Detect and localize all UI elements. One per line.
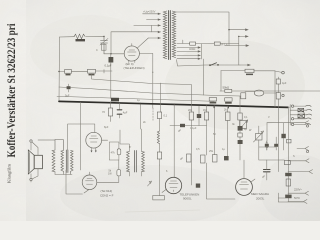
wire switch line y65 (153, 54, 240, 109)
svg-text:50Hz: 50Hz (294, 197, 301, 200)
resistor R1 (zigzag) (74, 34, 85, 39)
tube V1 (input pentode) (124, 46, 139, 61)
svg-text:MED SAGRA: MED SAGRA (251, 192, 269, 196)
svg-text:8µF: 8µF (104, 126, 109, 129)
transformer T1 left winding (163, 11, 167, 59)
tube V5 (rectifier) (236, 179, 253, 196)
fuse F1 (298, 109, 304, 112)
terminal circle (282, 71, 285, 74)
wire grid line to tube V1 (104, 53, 124, 55)
node vertical tap bus (201, 44, 203, 59)
pot with arrow (variable resistor) (256, 134, 263, 141)
wires arrow taps into transformer T1 left (134, 14, 161, 38)
svg-text:0,1: 0,1 (164, 114, 168, 118)
node mains vertical (288, 105, 290, 126)
pot chain x159.5 (160, 83, 162, 112)
svg-text:4µF: 4µF (123, 111, 128, 115)
wire speaker bottom (31, 172, 72, 182)
wire speaker output arrows (225, 30, 247, 65)
capacitor C2 (dark blob under grid wire) (110, 54, 112, 64)
potentiometer P2 (240, 121, 247, 129)
wire feedback top (111, 32, 161, 54)
wire mains lines (290, 106, 306, 124)
wire bottom y199 (207, 163, 236, 199)
wire x112 vertical (cap to bus) (110, 62, 112, 99)
wire T3 leads (120, 129, 142, 176)
svg-text:R 1 k: R 1 k (222, 43, 229, 47)
right column x288 lower (278, 108, 288, 202)
wire right supply line y70.6 (221, 71, 275, 101)
capacitor C7 dark (197, 114, 201, 118)
faint crease bottom (125, 210, 200, 212)
wire L3 mid horizontal (59, 87, 240, 96)
resistor box R15 (204, 112, 208, 120)
resistor box R10 below bus (110, 102, 112, 122)
svg-text:µF: µF (180, 157, 183, 161)
speaker terminals (30, 140, 32, 142)
wire 4th arrow (240, 64, 248, 66)
cap pair x283 (281, 134, 285, 138)
capacitor C1 (variable, at x104) (101, 36, 108, 54)
main bus (heavy dark) (59, 101, 288, 107)
resistor box R20 (201, 155, 206, 163)
transformer T2 (speaker) left winding (61, 140, 64, 172)
transformer T3 right winding (142, 152, 145, 172)
wire verticals from taps to bus (191, 59, 203, 105)
vertical title: Koffer-Verstärker St 32622/23 pri (5, 23, 18, 183)
resistor box R21 bottom (153, 196, 165, 200)
resistor box R3 (214, 42, 220, 45)
resistor box R16 (226, 112, 231, 121)
tube V4 (output) (165, 177, 181, 193)
svg-text:CDN2 = F: CDN2 = F (100, 194, 114, 198)
transformer T2 right winding (71, 151, 74, 174)
capacitor C4 dark blob on bus (111, 98, 119, 102)
cap C small (264, 170, 271, 172)
svg-text:Koffer-Verstärker St 32622/23: Koffer-Verstärker St 32622/23 pri (5, 23, 18, 158)
capacitor C8 dark small (224, 156, 229, 160)
transformer T3 core (135, 151, 137, 173)
node ticks below bus (214, 106, 229, 109)
transformer T2 core (66, 150, 68, 173)
wire L2 from R5 to x192 (92, 74, 192, 85)
oval component (254, 90, 264, 96)
resistor R13 capsule (117, 170, 121, 176)
node bus left vertical (58, 37, 61, 102)
right column x240 components (239, 96, 241, 160)
resistor box R2 (190, 42, 196, 45)
svg-text:Klangfilm: Klangfilm (7, 164, 12, 183)
wire mid horizontal y125 (170, 105, 207, 177)
switch S1 (211, 63, 217, 66)
mains hooks (305, 105, 312, 124)
svg-text:µF: µF (178, 129, 181, 133)
transformer T1 right winding (172, 11, 176, 58)
capacitor C6 dark on y125 (180, 124, 185, 127)
svg-text:(Tel 914): (Tel 914) (101, 189, 113, 193)
svg-text:C: C (96, 49, 98, 52)
wire x275 drop to bus (274, 101, 276, 107)
heater wiring bottom right caps (266, 141, 268, 150)
resistor box R5 (88, 69, 96, 73)
svg-text:50kΩ: 50kΩ (223, 86, 230, 90)
wire 50k box line y91 (220, 90, 320, 92)
wire tube V3 area (66, 170, 89, 194)
svg-text:0,5: 0,5 (196, 148, 200, 151)
svg-text:Tr: Tr (129, 146, 131, 149)
resistor box R9 above bus (225, 98, 232, 101)
capacitor C3 (dark, on left branch) (68, 84, 70, 92)
svg-text:1M: 1M (203, 109, 206, 112)
resistor R11 (zigzag vertical) (38, 140, 64, 173)
tube V2 (driver) (86, 132, 102, 148)
right lower terminals (297, 121, 309, 125)
svg-text:4µF: 4µF (282, 82, 287, 85)
wire top input horizontal (60, 35, 105, 38)
component column verticals mid (191, 105, 227, 185)
wire long vertical x140 upper (139, 105, 141, 130)
terminal circles mains (291, 105, 293, 107)
svg-text:(TELEFUNKEN): (TELEFUNKEN) (124, 66, 145, 70)
svg-text:220V~: 220V~ (294, 188, 303, 192)
capacitor C5 (4uF bars) (119, 103, 121, 118)
fuse F2 (298, 114, 304, 118)
resistor box R19 (187, 154, 192, 162)
capacitor C9 dark near tube (196, 184, 200, 188)
wire tap line y43.5 with two boxes (177, 40, 239, 44)
wire loop with resistor R12 (109, 142, 119, 160)
electrolytic stack x278 (277, 77, 279, 108)
svg-text:0,1: 0,1 (244, 116, 248, 119)
resistor box R14 (189, 112, 193, 120)
resistor box R18 (213, 155, 218, 163)
transformer T1 core (169, 11, 171, 60)
svg-text:900SL: 900SL (183, 197, 192, 201)
node grid arrow left of V4 (148, 181, 152, 186)
transformer T3 (interstage) left winding (127, 152, 130, 172)
switch contact lower (297, 147, 309, 151)
arrowheads (158, 13, 161, 40)
svg-text:0,1µF: 0,1µF (190, 127, 197, 130)
resistor box R4 (65, 70, 72, 74)
svg-text:µF: µF (262, 176, 265, 179)
wire left mid loop (68, 102, 95, 170)
resistor box R8 above bus (209, 98, 216, 101)
wire T1 secondary top to speaker terminals (176, 12, 229, 30)
resistor box R6 (245, 69, 254, 72)
wire L5 thin above bus (57, 96, 214, 101)
speaker LS1 (28, 150, 34, 174)
node dots misc (58, 29, 239, 72)
wire branch L1 y71.5 (59, 70, 112, 73)
wires T1 right winding taps with arrows (177, 48, 199, 59)
dashed coupling line (152, 108, 154, 121)
wire pot chain down + bottom box (159, 165, 161, 196)
wire bottom right (278, 193, 303, 202)
node junction x104 (103, 70, 105, 74)
tube V3 (pre) (82, 175, 97, 190)
extra tiny value labels (96, 49, 306, 173)
svg-text:+Ug=250V: +Ug=250V (143, 10, 156, 14)
node dots on bus (110, 102, 276, 108)
resistor box R7 (225, 89, 232, 92)
svg-text:2003L: 2003L (256, 197, 265, 201)
